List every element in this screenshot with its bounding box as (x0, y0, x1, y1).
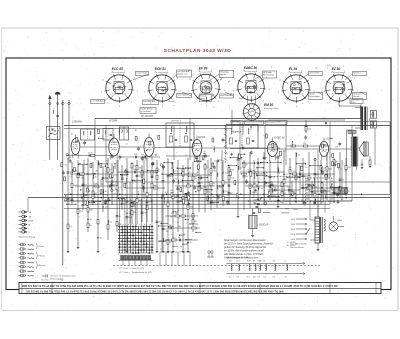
svg-text:15k: 15k (159, 221, 162, 223)
svg-text:Gitter 1: Gitter 1 (200, 97, 207, 100)
svg-text:Ratio-Diode: Ratio-Diode (263, 73, 274, 76)
svg-text:15k: 15k (81, 177, 84, 179)
svg-text:8k: 8k (134, 212, 136, 214)
wire lower bus 2 (64, 193, 390, 195)
svg-text:0,1: 0,1 (69, 176, 72, 178)
svg-text:5n: 5n (171, 234, 173, 236)
small can left of IF1 (103, 129, 113, 141)
svg-text:0,25: 0,25 (341, 191, 345, 193)
svg-text:10k: 10k (335, 147, 338, 149)
tube socket U5 EL 84 (278, 67, 316, 108)
svg-text:15k: 15k (124, 175, 127, 177)
svg-text:125V: 125V (291, 224, 296, 226)
svg-text:15k: 15k (198, 180, 201, 182)
svg-text:Wechselstrom: Wechselstrom (290, 246, 304, 249)
svg-text:3: 3 (285, 103, 286, 105)
svg-text:3k: 3k (175, 213, 177, 215)
svg-text:ZF-Filter I: ZF-Filter I (170, 120, 181, 123)
svg-text:15k: 15k (105, 206, 108, 208)
mesh tie lines (66, 154, 345, 247)
svg-text:ELT 508: ELT 508 (232, 122, 240, 124)
svg-text:La: La (285, 261, 287, 263)
svg-text:27° Taste — Tonabnehmer Nr. 22: 27° Taste — Tonabnehmer Nr. 225 (119, 271, 153, 274)
svg-text:ECH 81: ECH 81 (155, 67, 166, 71)
svg-text:5n: 5n (178, 237, 180, 239)
tuning gang dashed link (224, 126, 227, 163)
density pass right (234, 141, 340, 205)
svg-text:15k: 15k (329, 138, 332, 140)
svg-text:Steuergitter 0,8V: Steuergitter 0,8V (266, 121, 282, 124)
schematic border frame (6, 58, 391, 290)
svg-text:5k: 5k (137, 191, 139, 193)
svg-text:3k: 3k (213, 183, 215, 185)
table small caption (41, 279, 64, 282)
switch keys row (119, 256, 154, 261)
svg-text:40: 40 (170, 190, 172, 192)
input sockets legend group 1 (19, 211, 35, 234)
EABC coupling parts (268, 118, 345, 133)
svg-text:8k: 8k (282, 202, 284, 204)
svg-text:zur UKW-Box: zur UKW-Box (91, 101, 103, 103)
svg-text:1M: 1M (90, 209, 93, 211)
svg-text:3k: 3k (266, 172, 268, 174)
svg-text:Fassung unten: Fassung unten (332, 71, 346, 74)
svg-text:0,25: 0,25 (113, 194, 117, 196)
svg-text:0,5: 0,5 (171, 213, 174, 215)
svg-text:10k: 10k (105, 178, 108, 180)
svg-text:70: 70 (185, 155, 187, 157)
svg-text:3: 3 (343, 66, 344, 68)
svg-text:50: 50 (168, 240, 170, 242)
top right speaker 2 (369, 118, 376, 128)
svg-text:5n: 5n (110, 170, 112, 172)
svg-text:3k: 3k (95, 177, 97, 179)
voltage notes text block (223, 238, 274, 259)
svg-text:40: 40 (226, 195, 228, 197)
svg-text:8k: 8k (100, 237, 102, 239)
svg-text:7: 7 (233, 90, 234, 92)
chassis dashed line (113, 265, 320, 267)
svg-text:25k: 25k (293, 171, 296, 173)
svg-text:EABC: EABC (258, 260, 264, 263)
svg-text:5k: 5k (90, 225, 92, 227)
svg-text:110V: 110V (291, 219, 296, 221)
svg-text:5n: 5n (214, 160, 216, 162)
dial lamps and heater chain (227, 256, 305, 275)
svg-text:2M2 521 R42 1k 5% a4: 2M2 521 R42 1k 5% a4 R42 Tr1 0,5W 70p 84… (22, 284, 338, 288)
note lines under matrix (119, 267, 153, 274)
svg-text:Anode Osz.: Anode Osz. (177, 72, 188, 75)
svg-text:g1: g1 (315, 67, 317, 69)
svg-text:25k: 25k (289, 167, 292, 169)
svg-text:500: 500 (271, 149, 274, 151)
svg-text:40: 40 (71, 133, 73, 135)
wire lower bus 1 (106, 181, 390, 183)
svg-text:10k: 10k (268, 183, 271, 185)
svg-text:zur UKW-Box: zur UKW-Box (143, 101, 155, 103)
svg-text:Abgleich: Abgleich (231, 131, 242, 134)
svg-text:6,3: 6,3 (247, 277, 250, 279)
EM80 surround labels (231, 96, 287, 136)
svg-text:0,1: 0,1 (109, 157, 112, 159)
dashed unit box 1 (265, 177, 306, 202)
svg-text:150V: 150V (291, 229, 296, 231)
svg-text:25k: 25k (180, 182, 183, 184)
svg-text:Tastenaggregat von vorn gesehe: Tastenaggregat von vorn gesehen (160, 251, 192, 254)
svg-text:2M: 2M (344, 170, 347, 172)
legend caption (19, 236, 36, 238)
svg-text:1n: 1n (125, 144, 127, 146)
dashed unit box 2 (307, 178, 332, 202)
svg-text:ECC 85: ECC 85 (112, 67, 123, 71)
svg-text:6,3V~: 6,3V~ (351, 102, 357, 104)
svg-text:bei 220 V~ Netz Stand gemessen: bei 220 V~ Netz Stand gemessen. Abweich. (224, 241, 274, 245)
tube socket U2 ECH 81 (144, 67, 182, 108)
svg-text:2M: 2M (166, 231, 169, 233)
density pass socket row texture (168, 65, 343, 109)
svg-text:6,3: 6,3 (253, 277, 256, 279)
EZ80 label box extra (350, 99, 363, 104)
wire bus anode (232, 121, 390, 123)
svg-text:8k: 8k (266, 158, 268, 160)
density pass mid (161, 156, 230, 204)
svg-text:Aussch.: Aussch. (38, 264, 47, 267)
loudspeaker (358, 142, 368, 157)
svg-text:250: 250 (206, 182, 209, 184)
svg-text:6,3: 6,3 (258, 277, 261, 279)
socket label boxes (91, 70, 367, 104)
svg-text:25k: 25k (260, 188, 263, 190)
wire heater bus top (227, 262, 302, 264)
svg-text:6,3: 6,3 (273, 277, 276, 279)
svg-text:5n: 5n (203, 153, 205, 155)
svg-text:Anode 2: Anode 2 (353, 72, 361, 75)
svg-text:Anode: Anode (168, 100, 173, 103)
svg-text:b: b (122, 224, 123, 226)
IF filter box 1 (166, 120, 194, 147)
svg-text:0,5W/5%: 0,5W/5% (72, 120, 83, 123)
svg-text:2M: 2M (144, 212, 147, 214)
wire lower bus 4 (64, 200, 352, 202)
svg-text:EM 80: EM 80 (264, 103, 273, 107)
density pass mid2 (150, 155, 216, 201)
svg-text:5k: 5k (213, 203, 215, 205)
density pass left (64, 150, 154, 208)
svg-text:EZ 80: EZ 80 (332, 67, 341, 71)
electrolytic capacitor can 50/50uF (249, 208, 269, 237)
svg-text:25k: 25k (93, 196, 96, 198)
wire top bus 1 (95, 118, 361, 120)
svg-text:SCHALTPLAN 3043 W/3D: SCHALTPLAN 3043 W/3D (164, 48, 232, 54)
svg-text:e: e (131, 224, 132, 226)
svg-text:EABC 80: EABC 80 (244, 66, 258, 70)
svg-text:1n: 1n (348, 190, 350, 192)
svg-text:d: d (128, 224, 129, 226)
svg-text:5n: 5n (249, 155, 251, 157)
extra scattered components (86, 151, 336, 213)
svg-text:g Oszillator: g Oszillator (141, 110, 151, 113)
svg-text:Leuchtschirm 210V: Leuchtschirm 210V (245, 121, 263, 124)
svg-text:7: 7 (327, 68, 328, 70)
matrix to dashed-line wires (123, 252, 190, 266)
svg-text:Fassung unten: Fassung unten (289, 71, 303, 74)
svg-text:5: 5 (214, 107, 215, 109)
jack symbol right of keys (207, 251, 214, 257)
svg-text:8k: 8k (246, 176, 248, 178)
top right speaker 1 (370, 111, 376, 119)
svg-text:6,3: 6,3 (264, 277, 267, 279)
svg-text:5n: 5n (274, 184, 276, 186)
svg-text:Fassung unten: Fassung unten (155, 71, 169, 74)
svg-text:2M: 2M (348, 167, 351, 169)
tube socket U3 EF 89 (188, 67, 226, 108)
tolerance note right (287, 242, 295, 247)
svg-text:8k: 8k (341, 199, 343, 201)
component drop chains band 2 right (237, 155, 244, 218)
svg-text:Gehäuse mit Rückwand und: Gehäuse mit Rückwand und (50, 275, 76, 278)
svg-text:8k: 8k (190, 242, 192, 244)
EZ80 to transformer wire (339, 102, 361, 110)
svg-text:1: 1 (290, 67, 291, 69)
svg-text:1n: 1n (301, 199, 303, 201)
svg-text:50: 50 (255, 192, 257, 194)
svg-text:5: 5 (271, 67, 272, 69)
svg-text:100: 100 (118, 201, 121, 203)
wire lower bus 5 (85, 203, 330, 205)
svg-text:0,5: 0,5 (89, 185, 92, 187)
svg-text:6,3: 6,3 (237, 277, 240, 279)
output side caps (361, 156, 372, 169)
wire heater bus bottom (227, 273, 302, 275)
heater chain lower labels (229, 277, 287, 279)
svg-text:W 2048: W 2048 (109, 120, 118, 123)
svg-text:g: g (136, 224, 137, 226)
svg-text:Kat.: Kat. (239, 97, 243, 100)
parts table (19, 283, 381, 294)
tube socket U1 ECC 85 (101, 67, 139, 108)
svg-text:EF 89: EF 89 (199, 136, 206, 139)
svg-text:30: 30 (203, 151, 205, 153)
tube envelope at 272.5,149 (268, 138, 278, 161)
svg-text:Gitter EL84: Gitter EL84 (309, 72, 320, 75)
IF filter box 2 (226, 120, 258, 148)
svg-text:Fassung unten: Fassung unten (264, 107, 279, 110)
switch legend group 2 (19, 243, 47, 277)
top right transformer (355, 107, 367, 131)
svg-text:Fassung unten: Fassung unten (112, 71, 126, 74)
svg-text:gelten für Stellung TA ohne Si: gelten für Stellung TA ohne Signal bis (224, 245, 267, 249)
svg-text:240V: 240V (291, 239, 296, 241)
svg-text:8k: 8k (96, 170, 98, 172)
svg-text:Schirmgitter: Schirmgitter (177, 94, 188, 97)
output transformer (347, 130, 358, 170)
svg-text:5n: 5n (305, 167, 307, 169)
wire lower bus 6 (64, 208, 330, 210)
svg-text:0,3: 0,3 (229, 277, 232, 279)
svg-text:5n: 5n (85, 195, 87, 197)
scattered value labels (65, 149, 348, 251)
svg-text:1: 1 (229, 107, 230, 109)
rectifier (329, 216, 344, 231)
svg-text:40: 40 (196, 172, 198, 174)
svg-text:5n: 5n (177, 222, 179, 224)
svg-text:Buchsenbelegung: Buchsenbelegung (19, 236, 36, 238)
tube socket U6 EZ 80 (321, 67, 359, 108)
svg-text:Radio: Radio (39, 246, 45, 248)
svg-text:110–240 V 50 Hz: 110–240 V 50 Hz (290, 243, 308, 246)
oscillator coil box (81, 129, 95, 140)
svg-text:8k: 8k (177, 210, 179, 212)
svg-text:8k: 8k (201, 183, 203, 185)
svg-text:5k: 5k (301, 185, 303, 187)
svg-text:70: 70 (193, 176, 195, 178)
svg-text:5n: 5n (207, 167, 209, 169)
svg-text:15k: 15k (86, 188, 89, 190)
svg-text:2M: 2M (170, 242, 173, 244)
svg-text:ZF 460 kHz: ZF 460 kHz (140, 115, 154, 118)
power transformer (310, 202, 325, 251)
chassis note (42, 275, 76, 281)
svg-text:0,5: 0,5 (283, 151, 286, 153)
svg-text:10k: 10k (225, 173, 228, 175)
svg-text:B250: B250 (337, 220, 343, 222)
svg-text:8k: 8k (155, 155, 157, 157)
svg-text:10k: 10k (253, 183, 256, 185)
svg-text:h: h (139, 224, 140, 226)
svg-text:1M: 1M (273, 187, 276, 189)
svg-text:1M: 1M (185, 199, 188, 201)
svg-text:0,5: 0,5 (175, 178, 178, 180)
svg-text:70: 70 (274, 157, 276, 159)
svg-text:M: M (29, 225, 31, 227)
tube envelope at 75.5,146.5 (71, 135, 80, 159)
svg-text:8k: 8k (170, 217, 172, 219)
svg-text:8k: 8k (195, 221, 197, 223)
svg-text:EABC 80: EABC 80 (275, 137, 286, 140)
svg-text:15k: 15k (124, 194, 127, 196)
svg-text:15k: 15k (303, 143, 306, 145)
svg-text:1M: 1M (139, 167, 142, 169)
wire top bus 2 (64, 125, 390, 127)
svg-text:EL: EL (264, 261, 266, 263)
svg-text:100: 100 (178, 226, 181, 228)
tube envelope at 149,147 (144, 134, 154, 161)
svg-text:0,25: 0,25 (338, 168, 342, 170)
tube socket U7 EM 80 (243, 103, 280, 121)
svg-text:1M: 1M (149, 194, 152, 196)
svg-text:g3: g3 (220, 79, 222, 81)
svg-text:220V: 220V (291, 234, 296, 236)
svg-text:k: k (144, 224, 145, 226)
svg-text:Skalenlampen 7V 0,3A: Skalenlampen 7V 0,3A (227, 256, 249, 259)
svg-text:g3: g3 (188, 70, 190, 72)
scanned page edge right (397, 28, 399, 311)
hatched resistor block (334, 188, 348, 194)
svg-text:15k: 15k (80, 211, 83, 213)
svg-text:70: 70 (180, 246, 182, 248)
svg-text:Fassung unten: Fassung unten (199, 70, 213, 73)
svg-text:10k: 10k (195, 215, 198, 217)
svg-text:25k: 25k (225, 182, 228, 184)
svg-text:3k: 3k (212, 196, 214, 198)
scanned page edge bottom (2, 310, 399, 312)
svg-text:Phono: Phono (39, 256, 46, 258)
svg-text:27° Taste — Gerät Nr. 875: 27° Taste — Gerät Nr. 875 (119, 267, 145, 270)
wire lower bus 3 (28, 197, 390, 199)
bus junction dots (70, 194, 362, 202)
wire top bus 3 (64, 128, 232, 130)
svg-text:g1: g1 (228, 81, 230, 83)
tube envelope at 114,147 (109, 134, 119, 160)
svg-text:0,1: 0,1 (222, 186, 225, 188)
density pass left2 (61, 161, 109, 201)
svg-text:Katode: Katode (353, 95, 360, 98)
section labels (72, 115, 333, 141)
svg-text:Geändert: Geändert (41, 279, 50, 282)
component drop chains band 1 (67, 158, 74, 253)
svg-text:25k: 25k (149, 201, 152, 203)
antenna input symbols (48, 92, 70, 265)
svg-text:1n: 1n (269, 141, 271, 143)
tube envelope at 197,148 (192, 136, 202, 161)
svg-text:10k: 10k (105, 195, 108, 197)
IF transformer can 1 (120, 127, 129, 140)
svg-text:zum Ratio-El.: zum Ratio-El. (220, 94, 232, 97)
svg-text:30: 30 (106, 161, 108, 163)
mains voltage selector (291, 218, 311, 241)
svg-text:1n: 1n (154, 185, 156, 187)
svg-text:Fassung unten: Fassung unten (244, 70, 258, 73)
svg-text:15k: 15k (133, 169, 136, 171)
matrix connection labels (160, 251, 192, 254)
mains labels (290, 243, 308, 249)
svg-text:30: 30 (135, 130, 137, 132)
svg-text:5k: 5k (69, 157, 71, 159)
mid band parts y130-150 (71, 128, 342, 152)
svg-text:8k: 8k (65, 164, 67, 166)
svg-text:8k: 8k (246, 165, 248, 167)
svg-text:c: c (125, 224, 126, 226)
svg-text:50/50 µF: 50/50 µF (259, 225, 269, 227)
svg-text:Schirmgitter: Schirmgitter (309, 95, 320, 98)
tube envelope at 324,149 (319, 138, 328, 161)
svg-text:50: 50 (208, 175, 210, 177)
scanned page edge left (1, 28, 3, 311)
tube row link wires (80, 147, 352, 149)
scanned page edge top (2, 27, 399, 29)
svg-text:Anode: Anode (220, 73, 227, 76)
svg-text:1M: 1M (198, 183, 201, 185)
wire verticals main (28, 104, 390, 252)
tube socket U4 EABC 80 (233, 66, 271, 107)
svg-text:40: 40 (317, 182, 319, 184)
svg-text:alle Widerstände in Ohm, 0,5 W: alle Widerstände in Ohm, 0,5 Watt. (224, 252, 264, 256)
svg-text:EF 89: EF 89 (199, 67, 208, 71)
svg-text:25k: 25k (114, 181, 117, 183)
horizontal link chains (66, 153, 112, 157)
svg-text:1M: 1M (213, 170, 216, 172)
svg-text:1M: 1M (98, 187, 101, 189)
svg-text:5k: 5k (286, 178, 288, 180)
pushbutton switch matrix (118, 199, 154, 254)
UKW box label (140, 100, 159, 114)
svg-text:25k: 25k (117, 190, 120, 192)
svg-text:521 ECH81 Gr 5k6 7: 521 ECH81 Gr 5k6 70p 4703 R42 L3 Gr 4703… (26, 290, 284, 294)
antenna filter box (47, 127, 61, 140)
svg-text:zum Drehko: zum Drehko (136, 73, 148, 75)
